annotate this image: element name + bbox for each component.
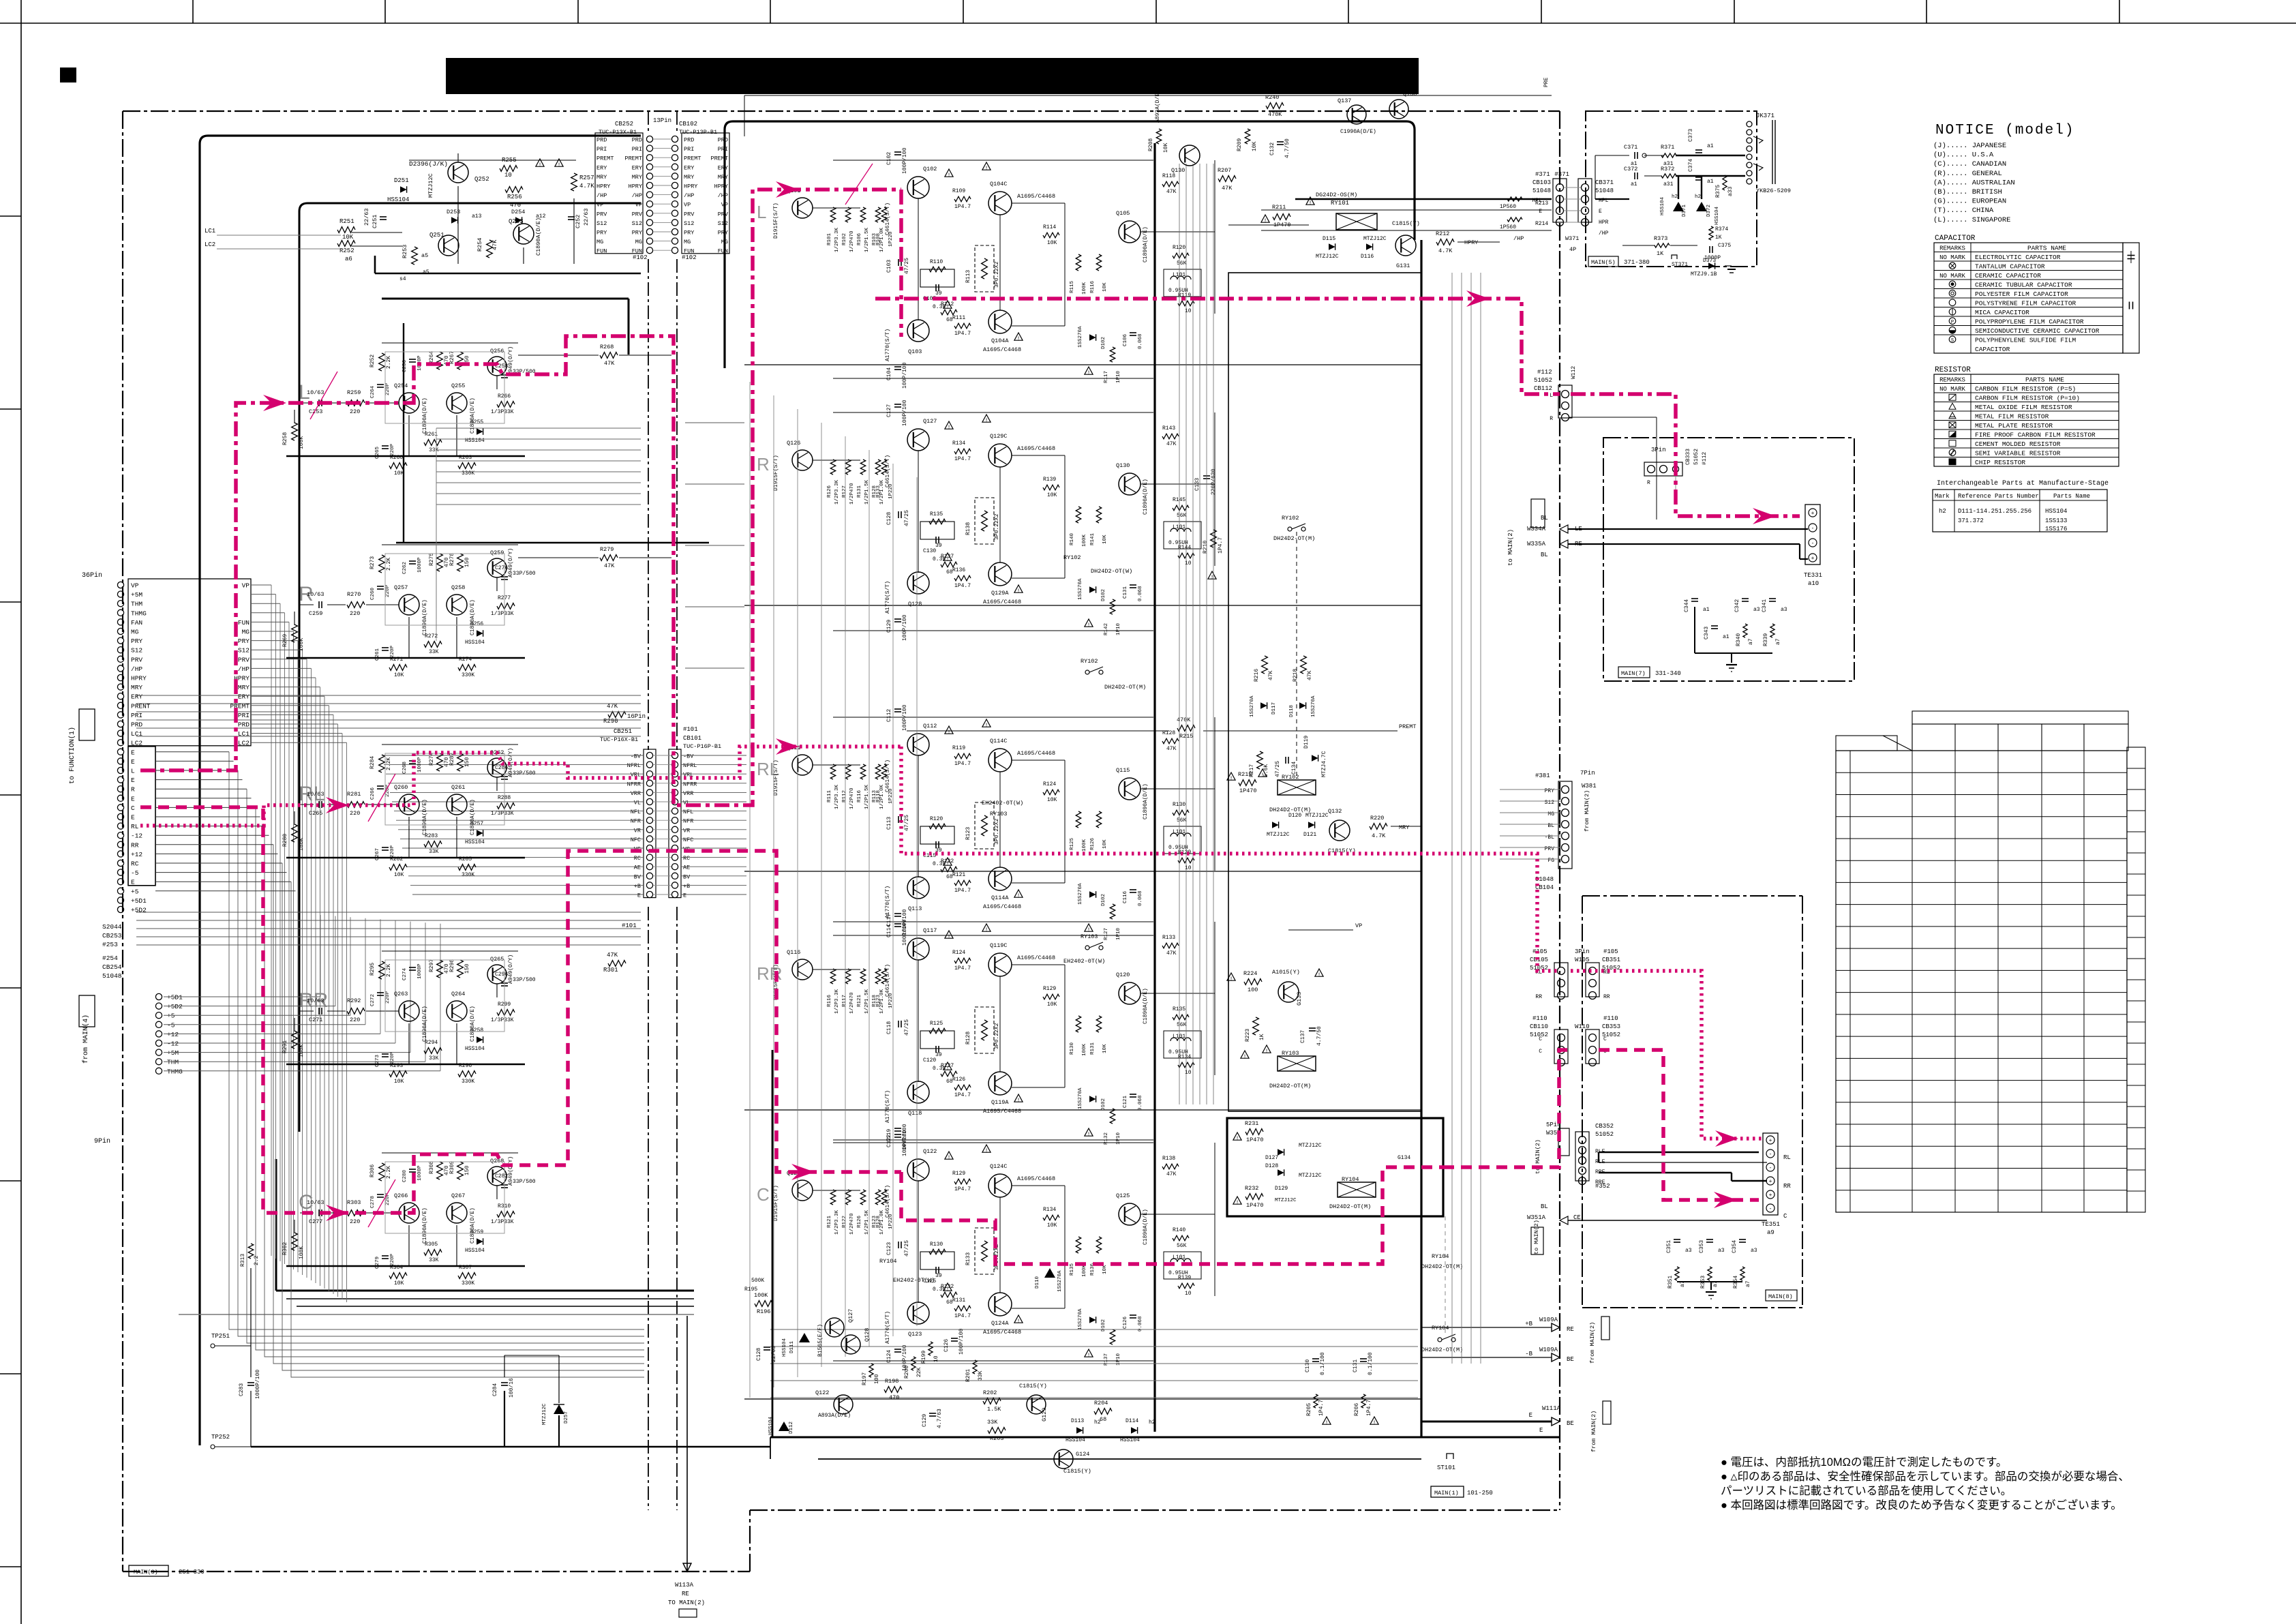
svg-text:MAIN(5): MAIN(5): [1591, 259, 1616, 266]
resistor R124 10K: [1043, 790, 1059, 795]
resistor R199 10: [928, 1342, 933, 1355]
resistor R260 10K: [389, 463, 407, 469]
svg-text:R195: R195: [744, 1287, 757, 1293]
svg-text:1SS270A: 1SS270A: [1311, 695, 1316, 717]
svg-text:PREMT: PREMT: [684, 155, 701, 162]
svg-text:10K: 10K: [1047, 1002, 1057, 1008]
svg-text:Q132: Q132: [1328, 808, 1342, 815]
svg-text:MAIN(3): MAIN(3): [134, 1569, 158, 1576]
svg-text:R208: R208: [1148, 138, 1154, 151]
resistor R196 100K: [755, 1301, 772, 1307]
transistor Q104C A1695/C4468: [988, 192, 1012, 215]
svg-text:+: +: [1811, 556, 1815, 562]
svg-text:0.068: 0.068: [1138, 1095, 1143, 1111]
svg-text:C373: C373: [1688, 129, 1694, 142]
svg-text:CAPACITOR: CAPACITOR: [1975, 346, 2010, 353]
resistor R210 1P4.7: [1211, 530, 1217, 547]
svg-text:!: !: [946, 1066, 950, 1072]
diode D117 1SS270A: [1260, 702, 1267, 709]
svg-text:YKB26-5209: YKB26-5209: [1756, 187, 1791, 194]
svg-text:100K: 100K: [1082, 282, 1087, 295]
svg-text:R302: R302: [282, 1242, 288, 1255]
svg-text:#381: #381: [1535, 772, 1550, 779]
svg-text:R: R: [1647, 480, 1650, 486]
diode D257 MTZJ12C: [554, 1404, 564, 1414]
svg-text:to FUNCTION(1): to FUNCTION(1): [68, 727, 76, 784]
resistor R274 330K: [458, 665, 476, 671]
svg-text:RR: RR: [1783, 1183, 1791, 1190]
inner preamp block outline (thick): [299, 203, 641, 1132]
svg-text:500K: 500K: [751, 1278, 764, 1284]
svg-text:R140: R140: [1173, 1227, 1185, 1233]
svg-text:R101: R101: [827, 232, 832, 245]
svg-text:NO MARK: NO MARK: [1939, 273, 1965, 280]
transistor Q258: [447, 595, 467, 615]
resistor R103: [875, 207, 881, 222]
svg-text:R213: R213: [1535, 200, 1548, 207]
svg-text:+: +: [1769, 1179, 1772, 1185]
svg-text:RY103: RY103: [1282, 1050, 1299, 1057]
svg-text:L: L: [131, 768, 135, 775]
svg-text:+5D2: +5D2: [167, 1003, 183, 1010]
svg-text:THM: THM: [167, 1059, 179, 1066]
svg-text:ST101: ST101: [1437, 1464, 1455, 1471]
svg-text:NFRR: NFRR: [683, 781, 697, 787]
svg-text:S12: S12: [596, 220, 607, 227]
svg-text:MRY: MRY: [1399, 824, 1409, 831]
svg-text:POLYPROPYLENE FILM CAPACITOR: POLYPROPYLENE FILM CAPACITOR: [1975, 318, 2084, 325]
svg-text:/HP: /HP: [131, 665, 142, 673]
svg-text:NFRR: NFRR: [627, 781, 641, 787]
svg-text:1P10: 1P10: [1116, 927, 1121, 940]
svg-text:R135: R135: [930, 511, 943, 517]
svg-text:C1890A(D/E): C1890A(D/E): [422, 397, 428, 434]
svg-text:R273: R273: [369, 556, 376, 569]
transistor Q121 D1915F: [792, 1180, 813, 1201]
svg-text:R: R: [757, 454, 770, 475]
svg-text:C106: C106: [1123, 333, 1128, 346]
capacitor C121 0.068: [1130, 1094, 1136, 1095]
svg-text:C123: C123: [886, 1242, 892, 1255]
svg-text:!: !: [1243, 1054, 1247, 1060]
svg-text:VP: VP: [596, 202, 603, 209]
svg-text:Q255: Q255: [451, 382, 465, 389]
svg-text:a7: a7: [1775, 638, 1781, 645]
svg-text:C1890A(D/E): C1890A(D/E): [422, 799, 428, 835]
resistor R119 10: [1178, 301, 1194, 306]
transistor Q119A A1695/C4468: [988, 1072, 1012, 1095]
capacitor C120 0.39: [935, 1046, 937, 1053]
svg-text:51048: 51048: [1595, 187, 1614, 194]
MAIN(3) board boundary (dash-dot): [123, 110, 1560, 112]
svg-text:D119: D119: [1303, 736, 1310, 749]
svg-text:Q252: Q252: [474, 176, 489, 183]
svg-text:R199: R199: [921, 1351, 927, 1364]
svg-text:!: !: [948, 425, 951, 431]
resistor R113: [875, 764, 881, 779]
svg-text:PRI: PRI: [131, 712, 142, 719]
svg-text:METAL PLATE RESISTOR: METAL PLATE RESISTOR: [1975, 422, 2053, 430]
capacitor C265 220P: [382, 445, 389, 447]
capacitor C133 220P/630: [1203, 475, 1210, 477]
svg-text:!: !: [948, 934, 951, 940]
svg-text:1P4.7: 1P4.7: [954, 1186, 971, 1192]
diode D102 1SS270A: [1089, 334, 1096, 341]
resistor R209 10K: [1245, 129, 1250, 144]
transistor Q103 A1770: [907, 320, 929, 342]
capacitor C264 220P: [377, 384, 384, 385]
diode D256 HSS104: [477, 630, 483, 637]
svg-text:D102: D102: [1101, 894, 1106, 906]
svg-text:33K: 33K: [429, 1055, 439, 1062]
svg-text:!: !: [1087, 1132, 1091, 1138]
svg-text:R121: R121: [857, 994, 862, 1007]
resistor R134 1P4.7: [954, 449, 971, 454]
W113A output arrow: [686, 1316, 688, 1572]
relay RY102 contact mid: [1085, 670, 1089, 674]
svg-text:DH24D2-OT(M): DH24D2-OT(M): [1273, 535, 1315, 542]
transistor Q132: [1329, 820, 1350, 841]
svg-text:R258: R258: [282, 432, 288, 445]
svg-text:C283: C283: [239, 1383, 245, 1396]
svg-text:Q120: Q120: [1116, 972, 1130, 978]
svg-text:to MAIN(2): to MAIN(2): [1533, 1220, 1540, 1254]
svg-text:C127: C127: [886, 404, 892, 417]
svg-text:R201: R201: [965, 1369, 971, 1382]
resistor R266 1/3P33K: [497, 402, 515, 408]
svg-text:REMARKS: REMARKS: [1939, 245, 1965, 252]
svg-text:MAIN(7): MAIN(7): [1621, 670, 1646, 677]
capacitor C279 220P: [382, 1255, 389, 1257]
svg-text:LC1: LC1: [205, 228, 215, 235]
svg-text:CHIP RESISTOR: CHIP RESISTOR: [1975, 459, 2025, 466]
svg-text:R121: R121: [952, 872, 965, 878]
svg-text:h2: h2: [1149, 1419, 1155, 1426]
svg-text:DH24D2-OT(M): DH24D2-OT(M): [1329, 1203, 1371, 1210]
svg-text:Q126: Q126: [787, 440, 800, 447]
svg-text:R297: R297: [429, 959, 435, 972]
svg-text:ERY: ERY: [596, 164, 607, 171]
svg-text:Q124A: Q124A: [991, 1320, 1009, 1327]
resistor R123: [881, 969, 887, 984]
svg-text:SEMI VARIABLE RESISTOR: SEMI VARIABLE RESISTOR: [1975, 449, 2061, 457]
svg-text:C372: C372: [1624, 166, 1637, 172]
svg-text:Parts Name: Parts Name: [2053, 493, 2090, 500]
svg-text:!: !: [946, 556, 950, 562]
transistor Q102: [907, 177, 929, 198]
svg-text:E: E: [131, 749, 135, 756]
L path through power amp: [899, 190, 903, 337]
svg-text:16Pin: 16Pin: [627, 713, 646, 720]
capacitor C128 47/25: [898, 511, 899, 518]
svg-text:R128: R128: [965, 1032, 971, 1044]
resistor R129 10: [1178, 858, 1194, 863]
connector CB105: [1558, 967, 1565, 975]
transistor Q138: [1389, 100, 1408, 119]
svg-text:Q104C: Q104C: [990, 181, 1008, 187]
svg-text:R140: R140: [1070, 532, 1075, 545]
capacitor C252: [568, 216, 575, 217]
svg-text:R204: R204: [1094, 1400, 1108, 1407]
capacitor C283 1000P/100: [247, 1382, 254, 1383]
svg-text:BV: BV: [634, 873, 641, 880]
svg-text:a1: a1: [1631, 181, 1637, 187]
svg-text:1SS133: 1SS133: [2045, 517, 2067, 524]
svg-text:R214: R214: [1535, 221, 1548, 227]
resistor R232 1P470: [1245, 1194, 1263, 1200]
svg-text:D102: D102: [1101, 589, 1106, 601]
svg-text:R203: R203: [990, 1435, 1003, 1442]
transistor Q124A A1695/C4468: [988, 1293, 1012, 1316]
svg-text:R231: R231: [1245, 1120, 1258, 1127]
svg-text:D373: D373: [1703, 258, 1716, 264]
svg-text:1000P: 1000P: [417, 557, 423, 573]
svg-text:A949(O/Y): A949(O/Y): [508, 954, 514, 984]
svg-text:VP: VP: [635, 202, 642, 209]
svg-text:39: 39: [935, 290, 942, 297]
main feedback rail (thick): [772, 1050, 774, 1437]
svg-text:#371: #371: [1535, 171, 1550, 178]
connector CB352 5-pin: [1579, 1137, 1586, 1144]
relay RY102 coil: [1278, 780, 1316, 795]
svg-text:THM: THM: [131, 601, 142, 608]
svg-text:A949(O/Y): A949(O/Y): [508, 346, 514, 376]
svg-text:10: 10: [1185, 560, 1192, 567]
svg-text:R111: R111: [827, 790, 832, 802]
svg-text:LC2: LC2: [238, 740, 250, 747]
capacitor C103 47/25: [898, 259, 899, 266]
svg-text:Q113: Q113: [908, 905, 922, 912]
svg-text:(G)..... EUROPEAN: (G)..... EUROPEAN: [1933, 198, 2006, 206]
svg-text:1000P: 1000P: [417, 757, 423, 772]
svg-text:330K: 330K: [462, 1079, 474, 1085]
transistor Q254: [399, 393, 419, 413]
diode D121: [1308, 822, 1315, 828]
svg-text:a1: a1: [1703, 607, 1710, 613]
capacitor C251: [380, 216, 387, 217]
capacitor C351: [1674, 1239, 1680, 1240]
svg-text:C1815(Y): C1815(Y): [1019, 1383, 1047, 1389]
resistor R259: [347, 400, 365, 406]
svg-text:HPRY: HPRY: [629, 183, 642, 190]
capacitor C282 33P/500: [501, 1184, 508, 1186]
svg-text:+B: +B: [1525, 1321, 1532, 1327]
svg-text:/HP: /HP: [632, 192, 642, 199]
svg-text:!: !: [1087, 927, 1091, 933]
svg-text:POLYSTYRENE FILM CAPACITOR: POLYSTYRENE FILM CAPACITOR: [1975, 299, 2076, 307]
svg-text:1SS270A: 1SS270A: [1078, 1308, 1083, 1330]
svg-text:R218: R218: [1293, 669, 1299, 682]
svg-text:REMARKS: REMARKS: [1939, 376, 1965, 383]
svg-text:R116: R116: [827, 994, 832, 1007]
svg-text:#102: #102: [633, 254, 648, 261]
svg-text:Q265: Q265: [490, 956, 504, 963]
svg-text:TE331: TE331: [1804, 572, 1822, 579]
svg-text:#105: #105: [1532, 948, 1547, 955]
svg-text:R292: R292: [347, 997, 361, 1004]
svg-text:D116: D116: [1361, 254, 1374, 260]
RL path to TE351: [1571, 971, 1762, 1139]
transistor Q127: [825, 1318, 844, 1337]
capacitor C129 100P/100: [894, 618, 901, 620]
svg-text:S12: S12: [632, 220, 642, 227]
transistor Q120 C1890A: [1119, 982, 1141, 1004]
resistor R219 1P470: [1239, 780, 1256, 786]
svg-text:VRR: VRR: [631, 790, 641, 797]
svg-text:R112: R112: [842, 790, 847, 802]
resistor R139 10: [1178, 1283, 1194, 1289]
svg-text:DG24D2-OS(M): DG24D2-OS(M): [1316, 192, 1357, 198]
svg-text:150: 150: [464, 1165, 470, 1175]
svg-text:-: -: [1811, 541, 1815, 547]
svg-text:PRE: PRE: [1543, 77, 1550, 87]
svg-text:C1890A(D/E): C1890A(D/E): [422, 1207, 428, 1244]
svg-text:150: 150: [464, 963, 470, 974]
resistor R198 470: [884, 1387, 902, 1393]
svg-text:330K: 330K: [462, 1280, 474, 1287]
svg-text:Q266: Q266: [394, 1192, 408, 1199]
resistor R309 150: [457, 1162, 464, 1179]
svg-text:MTZJ12C: MTZJ12C: [1267, 832, 1290, 838]
svg-text:S12: S12: [238, 647, 250, 655]
svg-text:3Pin: 3Pin: [1575, 948, 1590, 955]
svg-text:470K: 470K: [1268, 111, 1282, 118]
svg-text:HPRY: HPRY: [714, 183, 728, 190]
resistor R130 100K: [1076, 1016, 1081, 1032]
svg-text:MTZJ12C: MTZJ12C: [542, 1403, 547, 1425]
svg-text:Mark: Mark: [1935, 493, 1950, 500]
svg-text:!: !: [1230, 776, 1233, 782]
svg-text:R123: R123: [876, 994, 881, 1007]
svg-text:#254: #254: [102, 954, 118, 962]
svg-text:MG: MG: [721, 239, 728, 245]
signal bus wires from FUNCTION connector: [251, 584, 271, 586]
svg-text:ERY: ERY: [684, 164, 694, 171]
svg-text:D257: D257: [470, 821, 483, 827]
svg-text:R371: R371: [1661, 144, 1674, 151]
inductor L10x 0.95UH: [1164, 1031, 1201, 1058]
diode D116: [1366, 243, 1373, 250]
svg-text:1P4.7: 1P4.7: [954, 583, 971, 589]
resistor R267 150: [457, 352, 464, 370]
svg-text:S: S: [1951, 338, 1954, 344]
svg-text:D102: D102: [1101, 337, 1106, 349]
resistor R272 33K: [424, 642, 442, 648]
svg-text:PRD: PRD: [238, 721, 250, 729]
svg-text:R135: R135: [1070, 1263, 1075, 1276]
connector CB103 #371: [1556, 184, 1564, 192]
svg-text:51052: 51052: [1534, 377, 1552, 384]
svg-text:1000P/100: 1000P/100: [255, 1370, 261, 1399]
diode D117 1SS270A: [1089, 1096, 1096, 1102]
svg-text:D115: D115: [1323, 236, 1335, 242]
svg-text:R216: R216: [1254, 669, 1260, 682]
capacitor C106 0.068: [1130, 332, 1136, 333]
svg-text:HSS104: HSS104: [465, 1046, 485, 1052]
svg-text:C265: C265: [309, 810, 322, 817]
svg-text:+: +: [1769, 1192, 1772, 1199]
capacitor C115 0.39: [935, 841, 937, 848]
capacitor C131 0.1/100: [1360, 1358, 1367, 1359]
diode D255 HSS104: [477, 428, 483, 435]
svg-text:22K: 22K: [916, 1367, 922, 1377]
svg-text:C122: C122: [886, 1134, 892, 1147]
svg-text:R280: R280: [282, 834, 288, 847]
capacitor C341: [1769, 598, 1776, 599]
svg-text:a31: a31: [1663, 181, 1674, 187]
svg-text:47K: 47K: [492, 239, 498, 250]
svg-text:Q114C: Q114C: [990, 738, 1008, 745]
svg-text:100P/100: 100P/100: [902, 400, 908, 426]
svg-text:13Pin: 13Pin: [653, 117, 671, 124]
svg-text:NFRL: NFRL: [683, 762, 697, 769]
svg-text:220: 220: [350, 1017, 360, 1023]
svg-text:!: !: [985, 1148, 988, 1154]
svg-text:!: !: [1017, 336, 1021, 342]
svg-text:220: 220: [350, 610, 360, 617]
svg-text:R212: R212: [1436, 230, 1449, 237]
svg-text:R283: R283: [425, 833, 438, 839]
svg-text:Q128: Q128: [864, 1328, 871, 1342]
capacitor C267 220P: [382, 847, 389, 848]
svg-text:R142: R142: [1104, 623, 1109, 635]
svg-text:1000P: 1000P: [417, 963, 423, 979]
svg-text:BL: BL: [1541, 552, 1548, 558]
resistor R288 1/3P33K: [497, 803, 515, 809]
svg-text:VRR: VRR: [683, 790, 693, 797]
svg-text:MTZJ12C: MTZJ12C: [1275, 1198, 1297, 1203]
svg-text:10K: 10K: [394, 872, 404, 878]
svg-text:A1770(S/T): A1770(S/T): [885, 329, 891, 361]
svg-text:10K: 10K: [1102, 282, 1108, 292]
svg-text:1.5K: 1.5K: [987, 1406, 1001, 1413]
svg-text:470: 470: [889, 1394, 899, 1401]
svg-text:-5: -5: [131, 869, 139, 877]
svg-text:!: !: [1017, 893, 1021, 899]
svg-text:220P/630: 220P/630: [1211, 468, 1217, 495]
svg-text:10: 10: [1185, 1070, 1192, 1076]
svg-text:10: 10: [933, 1355, 939, 1362]
resistor R215 470K: [1177, 725, 1195, 732]
svg-text:HSS104: HSS104: [2045, 508, 2067, 515]
svg-text:NFL: NFL: [683, 809, 693, 815]
svg-text:a1: a1: [1707, 179, 1714, 185]
svg-text:CB253: CB253: [102, 932, 122, 939]
main preamp block outline (thick): [200, 136, 641, 1445]
svg-text:CB333: CB333: [1685, 449, 1691, 465]
svg-text:PREMT: PREMT: [710, 155, 728, 162]
resistor R138 47K: [1162, 1164, 1179, 1169]
C channel signal path (dashed magenta): [140, 807, 408, 1213]
svg-text:TO MAIN(2): TO MAIN(2): [668, 1599, 705, 1606]
transistor Q115 C1890A: [1119, 778, 1141, 800]
svg-text:100K: 100K: [1082, 534, 1087, 547]
svg-text:RY103: RY103: [1081, 933, 1098, 940]
svg-text:Q122: Q122: [815, 1389, 829, 1396]
svg-text:R139: R139: [1178, 1275, 1191, 1281]
svg-text:1K: 1K: [1715, 235, 1722, 241]
svg-text:CB352: CB352: [1595, 1123, 1614, 1130]
svg-text:TUC-P13P-B1: TUC-P13P-B1: [679, 129, 717, 136]
svg-text:CB102: CB102: [679, 121, 697, 127]
resistor R293 10K: [389, 1071, 407, 1077]
transistor Q111 D1915F: [792, 755, 813, 775]
svg-text:100K: 100K: [1082, 839, 1087, 852]
svg-text:TUC-P16X-B1: TUC-P16X-B1: [600, 736, 638, 743]
svg-text:!: !: [1087, 622, 1091, 629]
svg-text:+5D1: +5D1: [131, 897, 147, 905]
svg-text:(L)..... SINGAPORE: (L)..... SINGAPORE: [1933, 216, 2010, 224]
